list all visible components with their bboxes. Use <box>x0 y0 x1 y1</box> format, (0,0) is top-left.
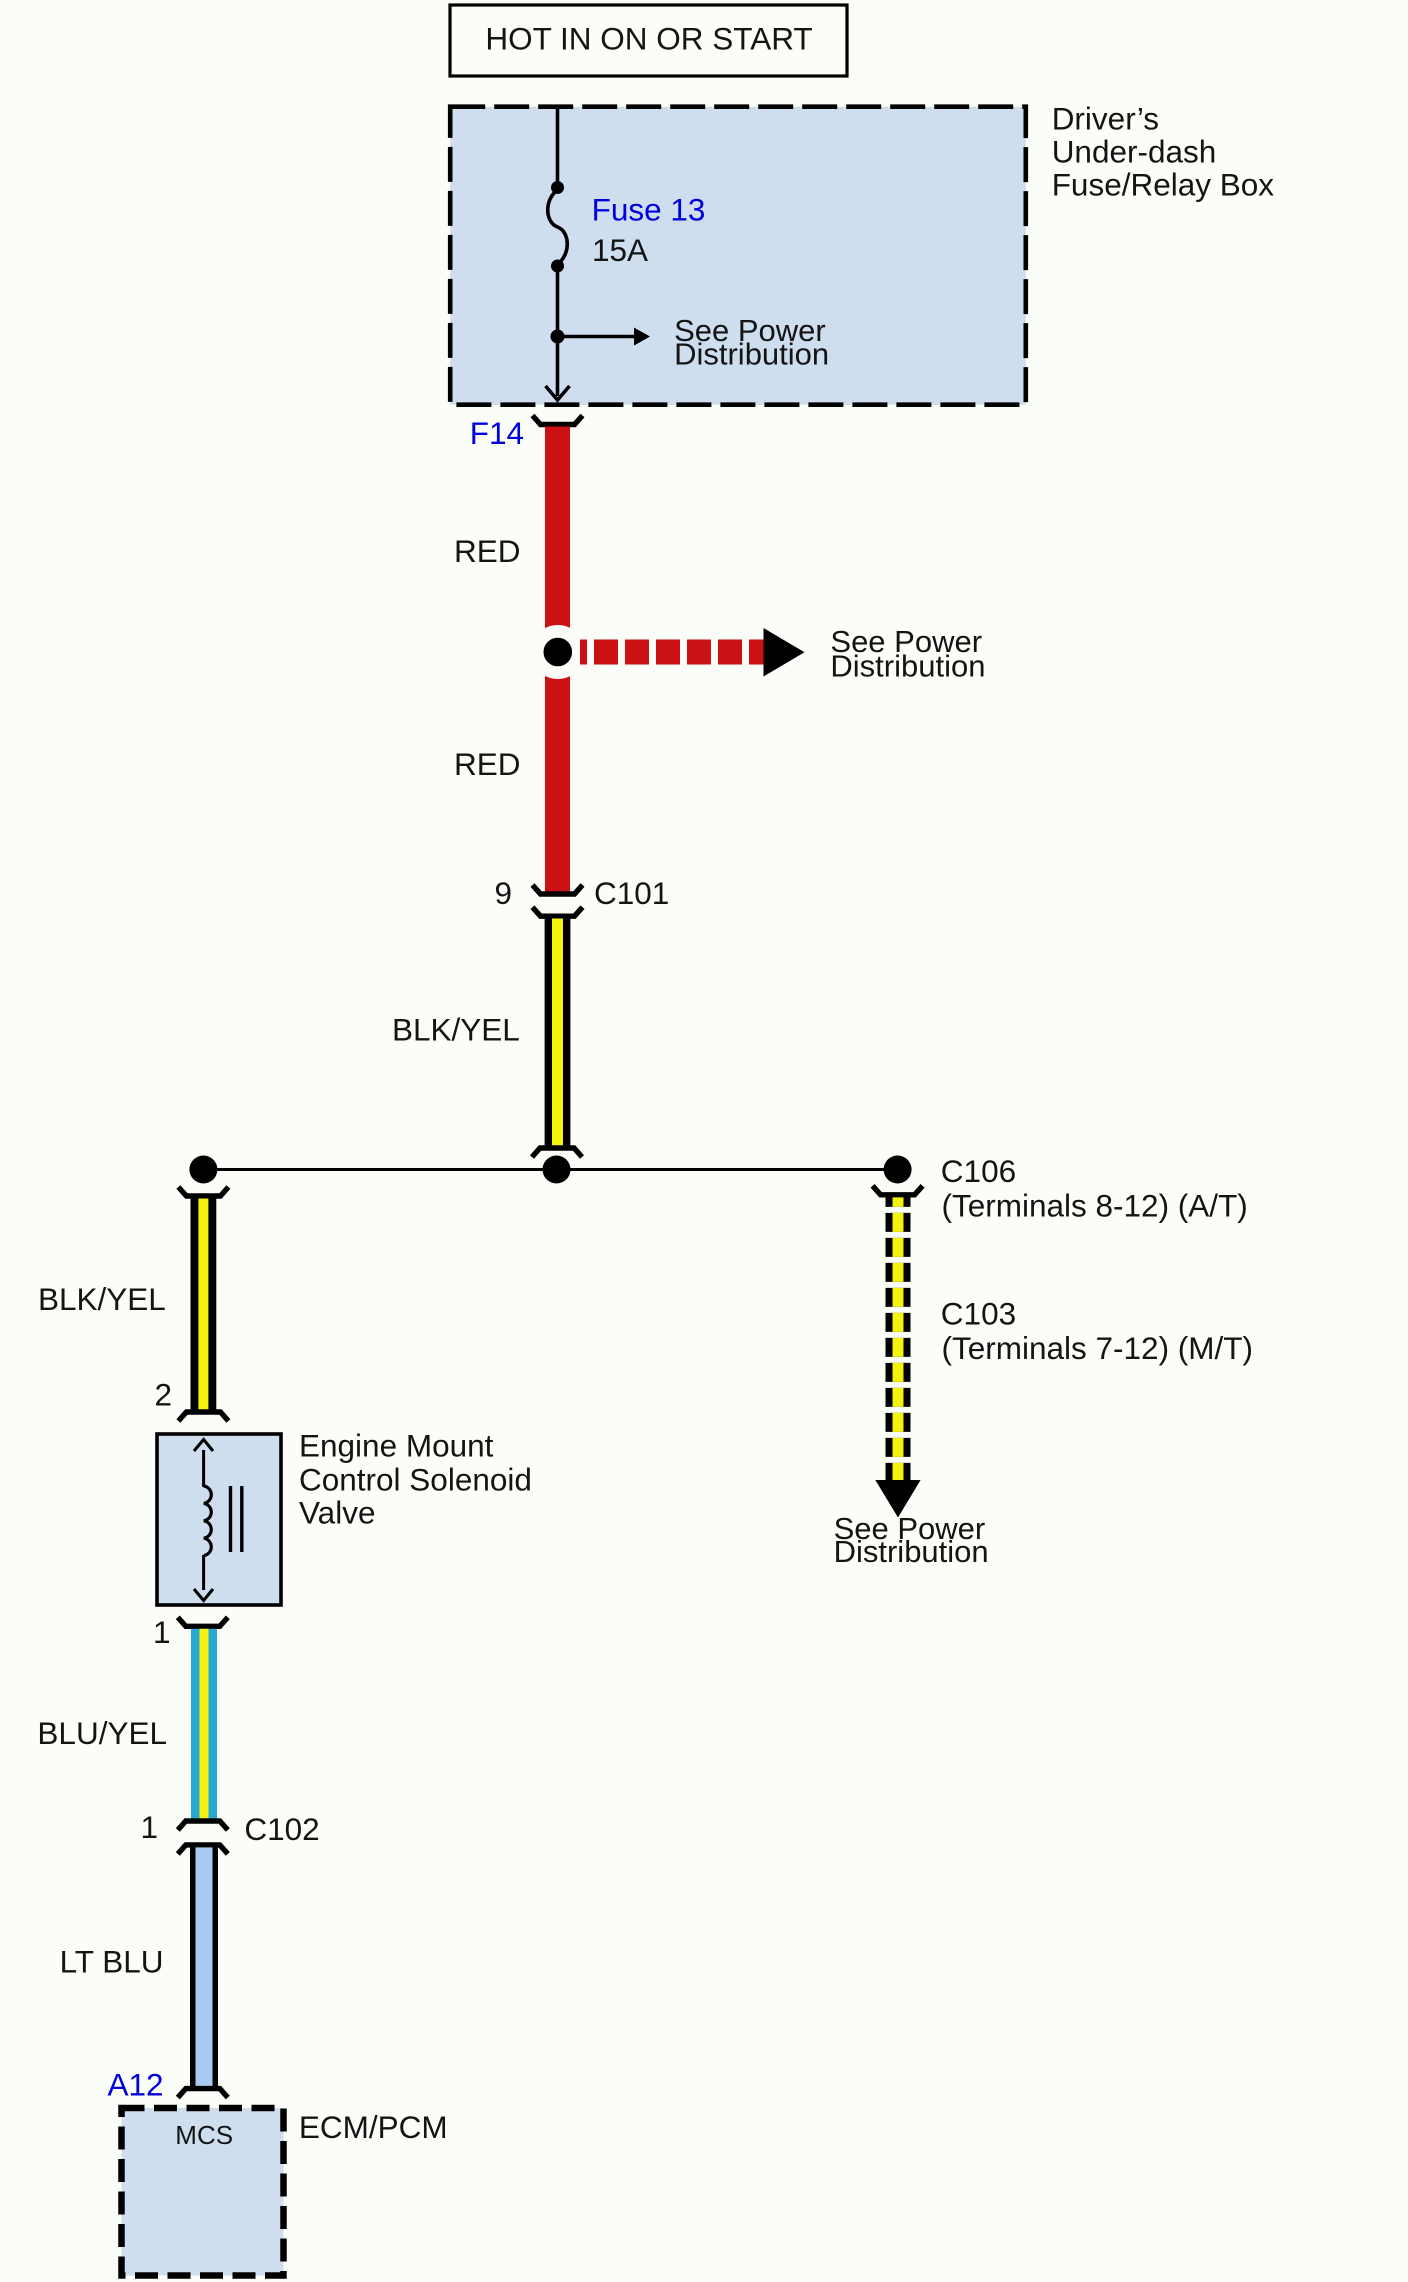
svg-text:9: 9 <box>494 875 512 911</box>
label Driver's Under-dash Fuse/Relay Box <box>1052 100 1275 202</box>
bus wire (horizontal) <box>203 1168 897 1171</box>
svg-text:Control Solenoid: Control Solenoid <box>299 1462 532 1498</box>
connector bracket pin 1 (valve) <box>178 1617 228 1626</box>
bracket below left junction <box>178 1187 228 1196</box>
wire RED segment 1 <box>545 427 570 653</box>
solenoid coil <box>204 1486 211 1556</box>
fuse 13 element (squiggle) <box>548 190 568 264</box>
svg-text:BLU/YEL: BLU/YEL <box>37 1715 167 1751</box>
branch wire to power distribution <box>558 335 635 339</box>
svg-text:BLK/YEL: BLK/YEL <box>38 1281 166 1317</box>
arrowhead of dashed red branch <box>764 628 805 677</box>
wire inside fuse box (upper segment) <box>556 106 560 189</box>
svg-text:Distribution: Distribution <box>674 337 829 372</box>
svg-text:15A: 15A <box>592 232 648 268</box>
connector C101 lower bracket <box>533 907 583 916</box>
Driver's Under-dash Fuse/Relay Box (dashed component box) <box>450 107 1026 405</box>
valve internal arrow shaft <box>202 1450 205 1487</box>
svg-text:(Terminals 8-12) (A/T): (Terminals 8-12) (A/T) <box>942 1188 1248 1224</box>
arrowhead of dashed wire <box>875 1480 920 1518</box>
svg-text:1: 1 <box>140 1809 158 1845</box>
valve gap lines <box>229 1486 232 1552</box>
svg-text:Under-dash: Under-dash <box>1052 134 1217 170</box>
svg-text:HOT IN ON OR START: HOT IN ON OR START <box>485 21 812 57</box>
valve internal arrowhead bottom <box>194 1589 213 1601</box>
connector A12 bracket <box>178 2089 228 2098</box>
wire LT BLU <box>190 1847 218 2086</box>
wire inside fuse box (lower segment) <box>556 266 560 396</box>
svg-text:RED: RED <box>454 746 521 782</box>
svg-text:Distribution: Distribution <box>830 648 985 683</box>
svg-text:2: 2 <box>154 1377 172 1413</box>
open arrowhead at fuse box exit <box>546 386 570 400</box>
svg-text:RED: RED <box>454 533 521 569</box>
svg-text:LT BLU: LT BLU <box>60 1944 164 1980</box>
svg-text:BLK/YEL: BLK/YEL <box>392 1012 520 1048</box>
junction node inside fuse box <box>551 330 565 344</box>
wire BLK/YEL (left branch) <box>191 1199 217 1410</box>
connector bracket pin 2 (valve) <box>178 1412 228 1421</box>
wire RED segment 2 <box>545 652 570 892</box>
arrowhead of branch wire <box>634 328 650 346</box>
svg-text:C103: C103 <box>941 1295 1016 1331</box>
svg-text:Driver’s: Driver’s <box>1052 100 1159 136</box>
Engine Mount Control Solenoid Valve box <box>157 1434 281 1605</box>
connector F14 (bracket) <box>533 416 583 425</box>
label Engine Mount Control Solenoid Valve <box>299 1427 532 1530</box>
svg-text:Engine Mount: Engine Mount <box>299 1427 494 1463</box>
connector C102 lower bracket <box>178 1845 228 1854</box>
label C106 (Terminals 8-12) (A/T) <box>941 1153 1248 1224</box>
svg-text:Fuse 13: Fuse 13 <box>592 191 706 227</box>
dashed red branch wire to power distribution <box>580 640 764 665</box>
label See Power Distribution (inside fuse box) <box>674 313 829 371</box>
node HOT IN ON OR START box <box>450 5 847 76</box>
bracket above center junction <box>532 1148 582 1157</box>
svg-text:MCS: MCS <box>175 2120 233 2150</box>
svg-text:C106: C106 <box>941 1153 1016 1189</box>
svg-text:C102: C102 <box>244 1811 319 1847</box>
valve internal arrowhead top <box>194 1440 213 1452</box>
svg-text:1: 1 <box>153 1614 171 1650</box>
svg-text:F14: F14 <box>470 415 524 451</box>
svg-text:A12: A12 <box>107 2067 163 2103</box>
junction node right <box>884 1156 912 1184</box>
junction node center <box>543 1156 571 1184</box>
connector C102 upper bracket <box>178 1821 228 1830</box>
svg-text:ECM/PCM: ECM/PCM <box>299 2109 448 2145</box>
bracket below right junction (C106) <box>873 1186 923 1195</box>
dashed wire BLK/YEL to power distribution <box>886 1197 911 1481</box>
junction node on red wire <box>531 625 585 679</box>
svg-text:Distribution: Distribution <box>834 1534 989 1569</box>
fuse F13 top terminal dot <box>551 181 564 194</box>
connector C101 upper bracket <box>533 885 583 894</box>
label C103 (Terminals 7-12) (M/T) <box>941 1295 1253 1366</box>
ECM/PCM box (dashed) <box>122 2108 284 2276</box>
svg-text:Valve: Valve <box>299 1494 375 1530</box>
label See Power Distribution (middle) <box>830 624 985 684</box>
fuse F13 bottom terminal dot <box>551 260 564 273</box>
svg-text:Fuse/Relay Box: Fuse/Relay Box <box>1052 167 1275 203</box>
svg-text:(Terminals 7-12) (M/T): (Terminals 7-12) (M/T) <box>942 1330 1254 1366</box>
svg-text:C101: C101 <box>594 875 669 911</box>
wire BLK/YEL (C101 to junction) <box>545 919 571 1147</box>
junction node left <box>189 1156 217 1184</box>
label See Power Distribution (bottom right) <box>834 1511 989 1569</box>
wire BLU/YEL <box>191 1629 217 1820</box>
